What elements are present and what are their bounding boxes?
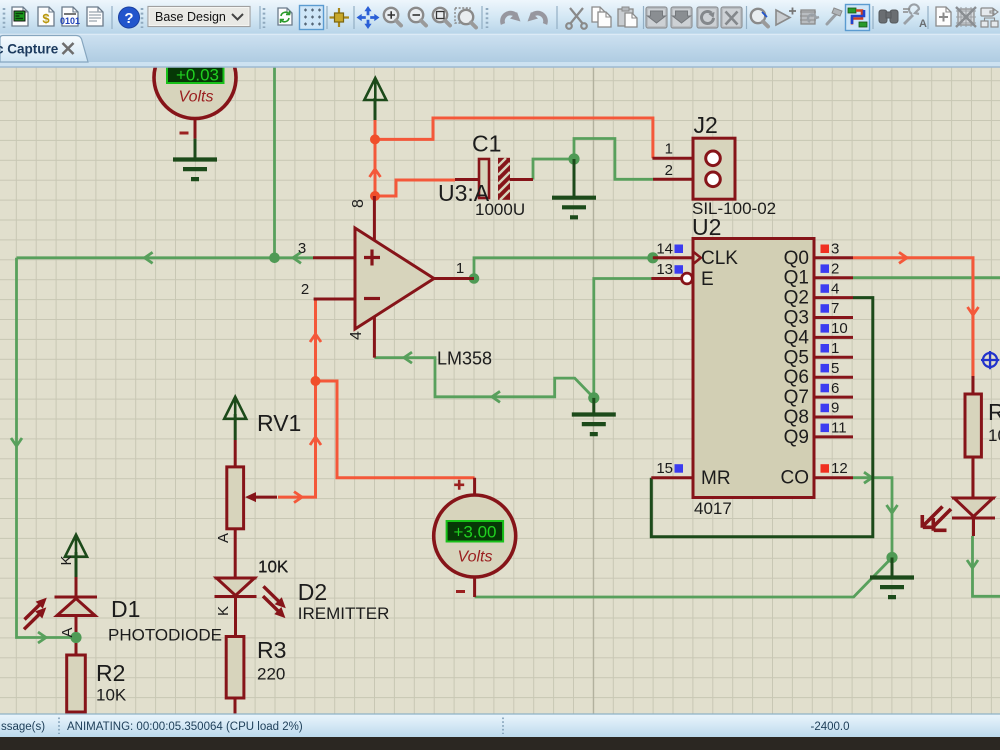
svg-text:R3: R3	[257, 637, 286, 663]
svg-text:C1: C1	[472, 131, 501, 157]
svg-text:Q0: Q0	[784, 248, 809, 269]
svg-text:+0.03: +0.03	[176, 66, 219, 85]
svg-text:220: 220	[257, 665, 285, 684]
svg-text:Volts: Volts	[179, 89, 214, 106]
svg-text:?: ?	[124, 10, 133, 27]
svg-text:IREMITTER: IREMITTER	[298, 604, 390, 623]
svg-text:3: 3	[298, 240, 306, 257]
svg-text:8: 8	[350, 199, 367, 208]
svg-text:3: 3	[831, 241, 839, 258]
svg-text:2: 2	[301, 281, 309, 298]
svg-text:15: 15	[656, 460, 673, 477]
svg-text:6: 6	[831, 380, 839, 397]
svg-text:1: 1	[456, 260, 464, 277]
svg-text:4017: 4017	[694, 499, 732, 518]
svg-text:4: 4	[831, 280, 839, 297]
svg-text:Base Design: Base Design	[155, 10, 226, 24]
svg-text:10K: 10K	[96, 686, 127, 705]
svg-text:U3:A: U3:A	[438, 180, 490, 206]
svg-text:Q5: Q5	[784, 347, 809, 368]
svg-text:1: 1	[831, 340, 839, 357]
svg-text:c Capture: c Capture	[0, 42, 59, 57]
svg-text:5: 5	[831, 360, 839, 377]
svg-text:2: 2	[831, 260, 839, 277]
svg-text:13: 13	[656, 261, 673, 278]
svg-text:Q1: Q1	[784, 268, 809, 289]
svg-text:Q4: Q4	[784, 327, 810, 348]
svg-text:11: 11	[831, 420, 847, 437]
svg-text:E: E	[701, 269, 714, 290]
svg-text:Q3: Q3	[784, 308, 809, 329]
svg-text:ssage(s): ssage(s)	[1, 721, 45, 733]
svg-text:A: A	[215, 533, 232, 543]
svg-text:J2: J2	[694, 112, 718, 138]
svg-text:10: 10	[831, 320, 848, 337]
svg-text:Q6: Q6	[784, 367, 809, 388]
svg-text:K: K	[58, 555, 75, 565]
svg-text:R2: R2	[96, 660, 125, 686]
svg-text:4: 4	[348, 331, 365, 340]
svg-text:7: 7	[831, 300, 839, 317]
svg-text:Q7: Q7	[784, 387, 809, 408]
svg-text:Q8: Q8	[784, 407, 809, 428]
svg-text:-2400.0: -2400.0	[810, 721, 849, 733]
svg-text:10K: 10K	[988, 426, 1000, 445]
svg-text:Q2: Q2	[784, 288, 809, 309]
svg-text:LM358: LM358	[437, 349, 492, 369]
svg-text:MR: MR	[701, 468, 731, 489]
svg-text:CLK: CLK	[701, 248, 738, 269]
svg-text:1: 1	[665, 141, 673, 158]
svg-text:U2: U2	[692, 214, 721, 240]
svg-text:K: K	[215, 606, 232, 616]
svg-text:9: 9	[831, 400, 839, 417]
svg-text:CO: CO	[781, 468, 810, 489]
svg-text:10K: 10K	[258, 558, 289, 577]
svg-text:R1: R1	[988, 399, 1000, 425]
svg-text:Volts: Volts	[458, 549, 493, 566]
svg-text:14: 14	[656, 241, 673, 258]
svg-text:A: A	[59, 627, 76, 637]
svg-text:D2: D2	[298, 579, 327, 605]
svg-text:A: A	[919, 18, 927, 30]
svg-text:Q9: Q9	[784, 427, 809, 448]
svg-text:ANIMATING: 00:00:05.350064 (CP: ANIMATING: 00:00:05.350064 (CPU load 2%)	[67, 721, 303, 733]
svg-text:0101: 0101	[60, 16, 80, 26]
svg-text:PHOTODIODE: PHOTODIODE	[108, 626, 222, 645]
svg-text:$: $	[42, 11, 50, 26]
svg-text:2: 2	[665, 162, 673, 179]
svg-text:+3.00: +3.00	[453, 523, 496, 542]
svg-text:RV1: RV1	[257, 410, 301, 436]
svg-text:D1: D1	[111, 596, 140, 622]
svg-text:12: 12	[831, 460, 848, 477]
